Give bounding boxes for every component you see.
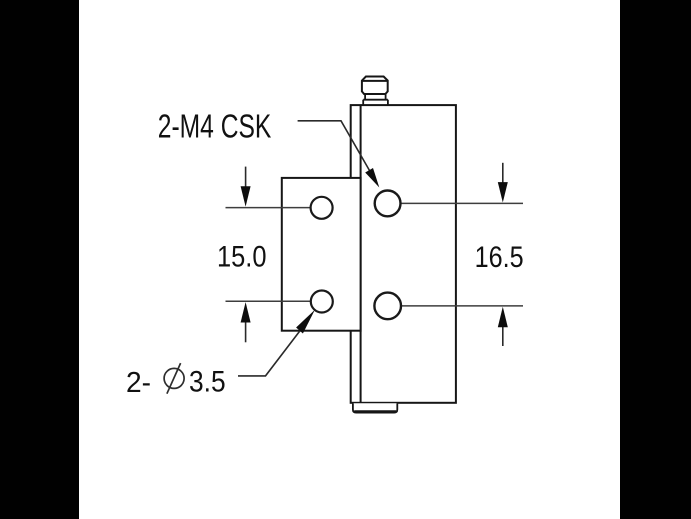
- left black pillar bar: [0, 0, 79, 519]
- witness line upper left (15.0 top): [226, 207, 315, 209]
- body front-face inner edge line: [360, 105, 362, 403]
- connector gland neck: [363, 94, 388, 100]
- dimension arrow right up: [498, 307, 508, 346]
- right black pillar bar: [620, 0, 691, 519]
- connector gland nut: [362, 77, 388, 95]
- dimension arrow right down: [498, 163, 508, 203]
- svg-text:2-M4 CSK: 2-M4 CSK: [158, 108, 271, 145]
- flange hole lower: [311, 291, 333, 313]
- connector gland base ring: [363, 100, 388, 105]
- svg-text:2-: 2-: [126, 367, 151, 399]
- svg-text:3.5: 3.5: [189, 365, 226, 398]
- witness line lower right (16.5 bottom): [396, 305, 524, 307]
- leader line 2-M4 CSK: [298, 121, 380, 188]
- body hole upper: [375, 191, 401, 217]
- dimension arrow left up: [241, 302, 251, 342]
- witness line upper right (16.5 top): [396, 202, 524, 204]
- dimension arrow left down: [241, 167, 251, 207]
- mounting flange plate: [282, 178, 361, 331]
- leader line 2-dia3.5: [238, 310, 315, 376]
- sensor body outline: [351, 105, 456, 403]
- bottom cap: [353, 403, 397, 412]
- svg-text:15.0: 15.0: [217, 241, 267, 274]
- svg-text:16.5: 16.5: [475, 241, 524, 274]
- flange hole upper: [311, 197, 333, 219]
- body hole lower: [374, 293, 401, 320]
- diameter symbol: [164, 363, 184, 394]
- witness line lower left (15.0 bottom): [226, 300, 315, 302]
